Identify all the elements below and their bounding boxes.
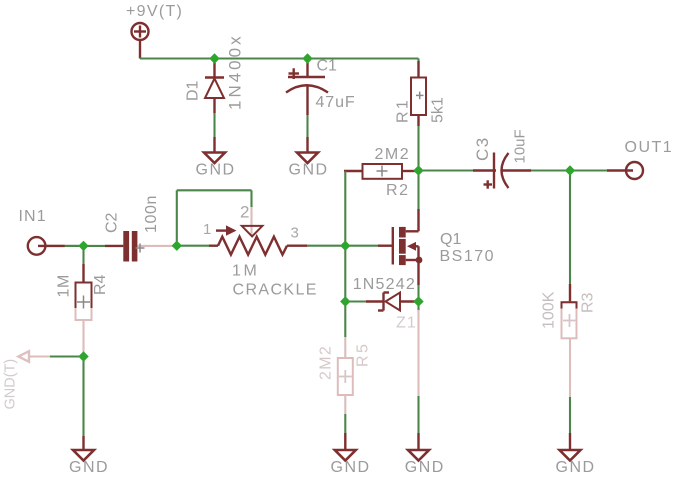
svg-text:R4: R4 xyxy=(92,274,109,295)
svg-text:1N5242: 1N5242 xyxy=(353,276,416,293)
svg-text:5k1: 5k1 xyxy=(430,97,447,123)
svg-text:47uF: 47uF xyxy=(316,94,356,111)
svg-text:10uF: 10uF xyxy=(512,129,529,163)
svg-text:C3: C3 xyxy=(473,136,492,161)
svg-text:Q1: Q1 xyxy=(440,231,461,248)
svg-text:CRACKLE: CRACKLE xyxy=(233,282,318,299)
svg-text:IN1: IN1 xyxy=(19,208,47,225)
svg-text:GND: GND xyxy=(331,459,371,476)
svg-text:OUT1: OUT1 xyxy=(625,139,674,156)
svg-text:GND: GND xyxy=(69,459,109,476)
svg-text:Z1: Z1 xyxy=(396,315,417,332)
svg-text:2M2: 2M2 xyxy=(375,146,411,163)
svg-text:100K: 100K xyxy=(541,291,558,329)
svg-text:R3: R3 xyxy=(580,292,597,313)
svg-text:GND: GND xyxy=(405,459,445,476)
svg-text:C2: C2 xyxy=(104,212,121,233)
svg-text:+9V(T): +9V(T) xyxy=(126,3,183,20)
svg-text:R5: R5 xyxy=(355,342,372,367)
svg-text:1N400x: 1N400x xyxy=(226,33,245,110)
svg-text:1M: 1M xyxy=(232,263,259,280)
svg-text:3: 3 xyxy=(291,225,299,242)
svg-text:1: 1 xyxy=(203,221,211,238)
svg-text:BS170: BS170 xyxy=(440,248,496,265)
svg-text:D1: D1 xyxy=(185,80,202,101)
svg-text:C1: C1 xyxy=(317,58,338,75)
svg-text:GND(T): GND(T) xyxy=(3,359,19,410)
svg-text:2M2: 2M2 xyxy=(317,345,334,380)
svg-text:GND: GND xyxy=(556,459,596,476)
svg-text:2: 2 xyxy=(240,203,249,222)
svg-text:100n: 100n xyxy=(143,195,160,233)
svg-text:R2: R2 xyxy=(386,182,410,199)
svg-text:1M: 1M xyxy=(56,274,73,297)
svg-text:GND: GND xyxy=(289,162,329,179)
svg-text:GND: GND xyxy=(196,162,236,179)
svg-text:R1: R1 xyxy=(395,98,412,123)
